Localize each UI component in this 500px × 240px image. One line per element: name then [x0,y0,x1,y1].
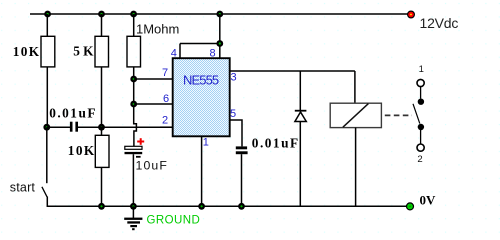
junction: R3 / pin6 [130,101,137,108]
wire: R1 bottom to junction [46,67,48,127]
svg-text:NE555: NE555 [183,73,219,88]
wire: rail to R3 top [133,14,135,36]
svg-text:0.01uF: 0.01uF [252,136,300,151]
resistor R1 10K [41,36,55,67]
svg-text:0.01uF: 0.01uF [49,105,97,120]
svg-text:1: 1 [419,64,424,75]
node: +12V terminal (red) [408,11,415,18]
svg-text:2: 2 [162,114,168,126]
svg-text:4: 4 [171,47,177,59]
node: contact 2 terminal [417,144,424,151]
wire: pin 4 up [179,44,181,59]
wire: to pin 7 [134,78,173,80]
wire: junction down to switch [46,127,48,183]
junction: R4 / bottom rail [98,203,105,210]
junction: pin1 / rail [198,203,205,210]
wire: R3 bottom down with jog to C2 [134,67,137,146]
wire: rail to R1 top [46,14,48,36]
diode D1 [295,111,307,122]
junction: R1 / C1 / switch node [43,124,50,131]
junction: R3 / pin7 [130,76,137,83]
wire: pin3 net down to relay [354,71,356,103]
relay K1 coil [330,103,381,127]
ground symbol [124,206,142,230]
mechanical link (dashed) [385,114,412,116]
junction: R2 / R4 / C1 net [98,124,105,131]
node: fixed contact (filled) [418,99,424,105]
resistor R4 10K [95,135,109,167]
junction: rail / R1 [44,11,51,18]
junction: pin4/pin8 tie [216,40,223,47]
svg-text:6: 6 [163,93,169,105]
wire: pin 5 to C3 [230,120,242,146]
node: 0V terminal (green) [407,203,414,210]
capacitor C2 10uF electrolytic [125,146,143,157]
switch: start (blade) [42,187,47,197]
svg-text:7: 7 [162,67,168,79]
label: + polarity (C2) [137,138,144,145]
resistor R2 5K [95,36,109,67]
svg-text:start: start [10,180,36,194]
wire: C2 bottom to rail [132,154,134,206]
junction: rail / pins 4+8 [216,11,223,18]
wire: diode to rail [299,122,301,207]
wire: contact 2 stem [420,130,422,144]
wire: pin 8 to rail [219,14,221,58]
junction: rail / R2 [98,11,105,18]
svg-text:3: 3 [231,72,237,84]
svg-text:2: 2 [417,154,422,165]
capacitor C3 0.01uF [236,146,248,154]
wire: pins 4-8 tie [180,43,220,45]
wire: relay to rail [355,128,357,207]
junction: C3 / rail [238,203,245,210]
wire: junction to R4 top [101,127,103,135]
node: contact 1 terminal [417,79,424,86]
svg-text:12Vdc: 12Vdc [420,15,459,31]
svg-text:0V: 0V [420,193,437,208]
junction: rail / R3 [130,11,137,18]
junction: C2 / ground / rail [130,203,137,210]
svg-text:8: 8 [210,47,216,59]
wire: C3 to rail [241,154,243,206]
switch blade (relay contact) [413,104,420,124]
wire: diode branch from pin3 net [299,71,301,111]
svg-text:1: 1 [203,137,209,149]
wire: rail to R2 top [101,14,103,36]
wire: R2 bottom to junction [101,67,103,127]
svg-text:5: 5 [230,108,236,120]
op-amp U1 NE555 body [173,58,230,136]
svg-text:1Mohm: 1Mohm [136,22,179,37]
svg-text:10K: 10K [13,44,41,59]
wire: +12V top rail [30,13,408,15]
capacitor C1 0.01uF (series) [47,122,173,132]
wire: R4 bottom to rail [101,167,103,206]
svg-text:5 K: 5 K [73,44,94,59]
wire: contact 1 stem [420,87,422,99]
resistor R3 1Mohm [127,36,141,67]
wire: switch to bottom rail [46,197,48,208]
node: moving contact (filled) [418,124,424,130]
svg-text:GROUND: GROUND [147,215,201,227]
wire: to pin 6 [134,103,173,105]
wire: pin 2 into chip (right part of C1 net drawn above) [160,126,173,128]
wire: pin 3 output [230,70,355,72]
wire: pin 1 to rail [201,136,203,206]
wire: 0V bottom rail [47,205,406,207]
svg-text:10uF: 10uF [136,158,168,172]
svg-text:10K: 10K [68,143,96,158]
